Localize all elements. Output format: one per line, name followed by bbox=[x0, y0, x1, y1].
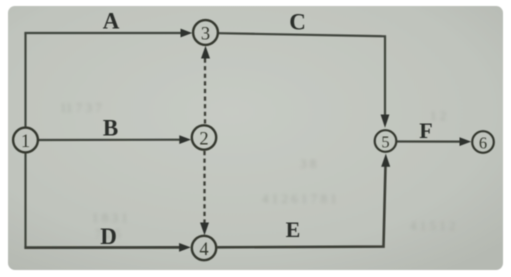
arrow A (1 to 3, top line) bbox=[24, 32, 182, 34]
svg-text:2: 2 bbox=[199, 130, 208, 150]
svg-text:1 8 3 1: 1 8 3 1 bbox=[92, 210, 128, 225]
wire: left vertical (1 down to bottom corner) bbox=[24, 154, 26, 249]
wire: left vertical (1 to top corner) bbox=[24, 33, 26, 127]
svg-text:11 7 3 7: 11 7 3 7 bbox=[60, 100, 102, 115]
arrowhead C bbox=[381, 115, 390, 128]
ghost text smudges (bleed-through) bbox=[60, 100, 456, 241]
svg-text:4: 4 bbox=[199, 240, 208, 260]
label C bbox=[289, 10, 306, 35]
arrow F (5 to 6) bbox=[397, 140, 461, 142]
arrow E (4 to 5) bbox=[217, 165, 385, 247]
arrowhead E bbox=[381, 154, 390, 167]
svg-text:3 8: 3 8 bbox=[300, 156, 316, 171]
dashed arrow 2 to 3 bbox=[204, 56, 206, 124]
label F bbox=[419, 118, 432, 143]
node 3 bbox=[193, 20, 218, 45]
arrowhead A bbox=[181, 29, 193, 38]
svg-text:4 1 5 1 2: 4 1 5 1 2 bbox=[410, 218, 456, 233]
node 4 bbox=[192, 236, 216, 260]
label E bbox=[286, 217, 301, 242]
dashed arrow 2 to 4 bbox=[203, 151, 205, 224]
svg-text:F: F bbox=[419, 118, 432, 143]
svg-text:6: 6 bbox=[479, 134, 487, 153]
arrowhead 2-4 bbox=[200, 223, 209, 236]
node 6 bbox=[472, 131, 494, 153]
node 1 bbox=[13, 128, 38, 153]
svg-text:3: 3 bbox=[201, 25, 210, 45]
svg-text:5: 5 bbox=[381, 133, 389, 152]
label A bbox=[103, 9, 120, 34]
arrowhead D bbox=[179, 243, 191, 252]
svg-text:C: C bbox=[289, 10, 306, 35]
svg-text:E: E bbox=[286, 217, 301, 242]
arrow D (1 to 4, bottom line) bbox=[24, 246, 181, 249]
arrowhead F bbox=[460, 137, 472, 146]
arrow C (3 to 5) bbox=[219, 33, 385, 116]
svg-text:A: A bbox=[103, 9, 120, 34]
svg-text:1: 1 bbox=[21, 132, 30, 152]
svg-text:B: B bbox=[103, 116, 118, 141]
arrow B (1 to 2) bbox=[39, 139, 181, 142]
arrowhead 2-3 bbox=[201, 46, 210, 59]
arrowhead B bbox=[179, 135, 191, 144]
node 5 bbox=[375, 130, 397, 152]
label B bbox=[103, 116, 118, 141]
svg-text:4 1 2 6 1 7 8 1: 4 1 2 6 1 7 8 1 bbox=[262, 191, 337, 206]
node 2 bbox=[192, 125, 216, 149]
svg-text:D: D bbox=[100, 224, 117, 249]
label D bbox=[100, 224, 117, 249]
